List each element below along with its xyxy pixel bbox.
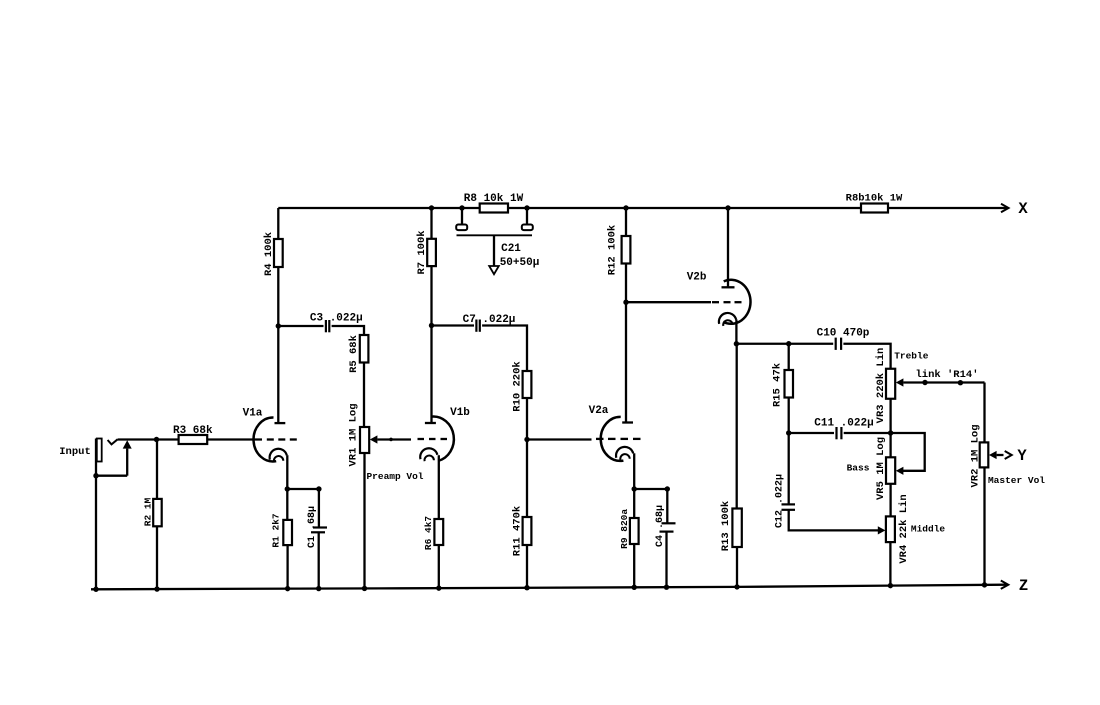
label R5 value [348,335,360,373]
wire: VR5 top lead [889,433,891,457]
wire: V1b cathode lead [438,455,440,519]
capacitor C4 top lead [666,489,668,523]
wire: HT rail to X output arrow [888,204,1009,212]
node: R2 top junction [154,437,159,442]
node: V2a cathode junction [632,486,637,491]
capacitor C12 top lead [788,433,790,504]
svg-text:R11 470k: R11 470k [512,506,524,556]
wire: V1a anode to C3 node [277,326,279,423]
svg-text:VR2 1M Log: VR2 1M Log [969,424,981,487]
wire: V2a anode to V2b grid node [625,302,627,422]
svg-text:C12 .022µ: C12 .022µ [775,474,786,528]
label R2 value [142,497,153,526]
node: C1 ground junction [316,586,321,591]
node: R7 top junction [429,205,434,210]
capacitor C21 section b plate [522,225,533,231]
label V1b [450,407,470,419]
capacitor C4 [660,523,676,531]
svg-text:R1 2k7: R1 2k7 [271,513,282,548]
node: R8 right junction (C21b tap) [524,205,529,210]
svg-text:R13 100k: R13 100k [720,501,732,551]
resistor R11 [523,517,532,545]
wire: R12 top lead to HT rail [625,208,627,236]
wire: C21 ground lead [493,235,495,266]
node: link R14 left end [922,380,927,385]
connector J1 tip contact [108,439,118,444]
wire: R2 bottom lead [156,526,158,589]
label VR4 value [898,494,910,563]
label R7 value [416,230,428,274]
wire: R2 top lead [156,440,158,499]
node: R6 ground junction [436,585,441,590]
node: VR1 ground junction [362,586,367,591]
wire: VR5 bottom to VR4 top [889,484,891,517]
resistor R15 [785,370,794,398]
potentiometer VR3 wiper [896,378,985,386]
node: VR3/VR5 junction [888,430,893,435]
node: VR2 ground junction [982,582,987,587]
label R4 value [263,232,275,276]
wire: C11 to VR5 wiper hook [844,433,925,471]
capacitor C10 [836,338,841,350]
svg-text:Z: Z [1019,577,1028,595]
node Y [1017,447,1027,465]
capacitor C12 [782,504,796,509]
label Master Vol [988,475,1045,486]
wire: R11 top lead [526,440,528,518]
label R3 value [173,425,213,437]
potentiometer VR4 wiper [878,526,886,534]
node: V1a anode / C3 tap [276,323,281,328]
node: C11/C12 junction [786,430,791,435]
wire: V1b anode to C7 node [430,326,432,423]
svg-text:R4 100k: R4 100k [263,232,275,276]
resistor R9 [630,518,639,544]
node: R15 top junction [786,341,791,346]
wire: anode node to R12 [625,264,627,303]
triode V2b [712,280,751,326]
svg-text:V1a: V1a [243,408,263,420]
wire: C10 to VR3 top [843,344,890,369]
resistor R4 [274,239,283,267]
svg-text:C11 .022µ: C11 .022µ [814,418,873,430]
wire: R15 top lead [788,344,790,370]
capacitor C21 section b lead [526,208,528,225]
node: R9 ground junction [632,585,637,590]
svg-text:R8b10k 1W: R8b10k 1W [846,193,903,205]
node: V2b anode junction [725,205,730,210]
potentiometer VR4 [886,516,895,542]
wire: ground rail arrow [1001,581,1009,589]
wire: junction to V2a grid [527,438,592,440]
wire: R3 to V1a grid [207,438,262,440]
svg-text:link 'R14': link 'R14' [915,369,978,381]
node: VR4 ground junction [888,583,893,588]
capacitor C1 [311,528,327,533]
svg-text:V2b: V2b [687,272,707,284]
node: V2b cathode / tone stack junction [734,341,739,346]
resistor R3 [179,435,208,444]
label V2b [687,272,707,284]
wire: VR4 bottom lead [889,542,891,586]
potentiometer VR2 wiper [989,451,1012,459]
label link R14 [915,369,978,381]
wire: R1 bottom lead [286,545,288,589]
wire: HT rail from R8 to R8b [527,207,861,209]
wire: input tip to R3 [118,438,179,440]
label R8b value [846,193,903,205]
triode V2a [596,417,641,461]
svg-text:C3 .022µ: C3 .022µ [310,313,363,325]
wire: V2b anode to HT rail [727,208,729,287]
svg-text:VR5 1M Log: VR5 1M Log [875,437,887,500]
resistor R13 [732,509,741,548]
svg-text:C7 .022µ: C7 .022µ [463,314,516,326]
svg-text:Bass: Bass [847,463,870,474]
wire: R15 bottom lead [788,398,790,434]
wire: R13 top lead [736,344,738,509]
label R12 value [606,225,618,275]
wire: V1b anode node to C7 [432,324,475,326]
capacitor C21 common negative plate [457,234,533,236]
label C11 value [814,418,873,430]
node: R1 ground junction [285,586,290,591]
wire: VR3 bottom to bass node [889,399,891,433]
svg-text:R2 1M: R2 1M [142,497,153,526]
wire: C11 left lead [789,432,834,434]
svg-text:X: X [1018,200,1028,218]
node: C1 top corner [316,486,321,491]
resistor R1 [283,520,292,545]
svg-text:R15 47k: R15 47k [771,363,783,407]
node: input ground junction [93,587,98,592]
label C4 value [655,505,666,547]
potentiometer VR3 [886,369,895,399]
label R1 value [271,513,282,548]
svg-text:R3 68k: R3 68k [173,425,213,437]
potentiometer VR1 wiper [370,435,411,443]
label R6 value [423,516,434,551]
label R9 value [619,509,630,549]
resistor R8 [462,204,527,213]
svg-text:C10 470p: C10 470p [817,328,870,340]
label V2a [589,405,609,417]
svg-text:VR4 22k Lin: VR4 22k Lin [898,494,910,563]
svg-text:50+50µ: 50+50µ [500,257,540,269]
svg-text:Master Vol: Master Vol [988,475,1045,486]
wire: anode node to R7 [430,266,432,325]
svg-text:R9 820a: R9 820a [619,509,630,549]
svg-text:C1 .68µ: C1 .68µ [307,506,318,548]
connector J1 shorting contact arrow [96,440,132,476]
wire: anode node to C3 [278,325,323,327]
svg-text:V1b: V1b [450,407,470,419]
label C21 ref [501,243,521,255]
node: R10/R11 junction [524,437,529,442]
wire: V1a cathode lead [286,455,288,489]
node: V2a anode / V2b grid junction [623,300,628,305]
resistor R7 [427,239,436,266]
triode V1a [254,417,297,461]
label V1a [243,408,263,420]
wire: V1a anode node to R4 [277,267,279,326]
node X [1018,200,1028,218]
capacitor C11 [837,427,842,439]
wire: R7 top lead to HT rail [430,208,432,239]
label Input [59,446,91,458]
potentiometer VR5 [886,457,895,484]
resistor R2 [153,499,162,526]
svg-text:Preamp Vol: Preamp Vol [366,471,423,482]
resistor R12 [622,236,631,264]
label R15 value [771,363,783,407]
capacitor C3 [326,320,329,332]
ground: C21 chassis arrow [489,266,499,274]
node: link R14 right end [958,380,963,385]
label Middle [911,524,946,535]
wire: R1 top lead [286,489,288,520]
resistor R5 [360,335,369,363]
label R13 value [720,501,732,551]
label VR5 value [875,437,887,500]
node: jack sleeve junction [93,473,98,478]
label R8 value [464,193,524,205]
svg-text:Middle: Middle [911,524,946,535]
node: C4 ground junction [664,584,669,589]
triode V1b [418,417,454,462]
potentiometer VR5 wiper [896,467,904,475]
node: R12 top junction [623,205,628,210]
label VR3 value [875,348,887,424]
svg-text:C21: C21 [501,243,521,255]
label Preamp Vol [366,471,423,482]
resistor R6 [434,519,443,545]
svg-text:VR1 1M Log: VR1 1M Log [347,403,359,466]
label C1 value [307,506,318,548]
label C21 value [500,257,540,269]
wire: V2a cathode lead [633,453,635,489]
svg-text:V2a: V2a [589,405,609,417]
wire: VR2 bottom lead [983,467,985,585]
label VR1 value [347,403,359,466]
label VR2 value [969,424,981,487]
svg-text:Y: Y [1017,447,1027,465]
wire: R4 top lead to HT rail [277,208,279,239]
node: V1a cathode junction [285,486,290,491]
node: R11 ground junction [524,585,529,590]
resistor R10 [523,371,532,398]
node Z [1019,577,1028,595]
capacitor C21 section a plate [456,225,467,231]
svg-text:Input: Input [59,446,91,458]
label C7 value [463,314,516,326]
wire: R9 bottom lead [633,544,635,587]
label Treble [894,351,929,362]
wire: R9 top lead [633,489,635,518]
node: R8 left junction (C21a tap) [459,205,464,210]
wire: HT supply rail from V1a anode column to R8 [278,207,462,209]
label R10 value [512,361,524,411]
svg-text:R5 68k: R5 68k [348,335,360,373]
wire: link to VR2 top [984,383,985,443]
capacitor C7 [476,320,479,332]
wire: ground rail [91,585,1007,590]
potentiometer VR1 [360,427,369,453]
label C10 value [817,328,870,340]
wire: V2b cathode lead [735,320,737,344]
label C3 value [310,313,363,325]
wire: cathode to C1 [287,488,319,490]
label C12 value [775,474,786,528]
svg-text:C4 .68µ: C4 .68µ [655,505,666,547]
wire: VR1 bottom to ground rail [363,453,365,588]
connector J1 input jack sleeve [96,439,102,476]
wire: R5 to VR1 [363,363,365,428]
node: C4 top corner [665,486,670,491]
label R11 value [512,506,524,556]
wire: V2b grid wire [626,301,711,303]
svg-text:R12 100k: R12 100k [606,225,618,275]
node: R13 ground junction [734,584,739,589]
svg-text:Treble: Treble [894,351,929,362]
wire: jack sleeve to ground rail [95,476,97,590]
svg-text:R6 4k7: R6 4k7 [423,516,434,551]
svg-text:R10 220k: R10 220k [512,361,524,411]
capacitor C1 top lead [318,489,320,528]
resistor R8b [861,204,888,213]
label Bass [847,463,870,474]
wire: C7 to R10 top [482,326,527,372]
node: V1b anode / C7 tap [429,323,434,328]
svg-text:VR3 220k Lin: VR3 220k Lin [875,348,887,424]
svg-text:R7 100k: R7 100k [416,230,428,274]
wire: R6 bottom lead [438,545,440,588]
wire: R13 bottom lead [736,547,738,587]
potentiometer VR2 [980,442,989,467]
svg-text:R8 10k 1W: R8 10k 1W [464,193,524,205]
wire: C3 to R5 top [332,326,364,335]
wire: R10 to junction [526,398,528,440]
capacitor C21 section a lead [461,208,463,225]
capacitor C4 bottom lead [665,532,667,588]
wire: R11 bottom lead [526,545,528,588]
wire: cathode node to C10 [736,343,833,345]
node: R2 ground junction [154,586,159,591]
capacitor C1 bottom lead [318,532,320,588]
wire: C12 to VR4 wiper [789,510,879,531]
wire: cathode to C4 [634,488,667,490]
